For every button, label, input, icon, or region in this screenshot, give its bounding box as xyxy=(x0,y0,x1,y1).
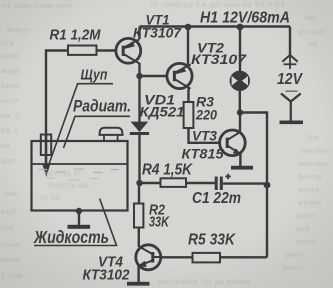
capacitor C1 (polarized) xyxy=(216,174,231,190)
diode VD1 (KD521) xyxy=(130,122,149,134)
ground at VT3 emitter xyxy=(231,153,253,170)
resistor R3 xyxy=(184,102,194,128)
resistor R2 xyxy=(134,204,143,228)
node lamp branch at rail xyxy=(237,24,244,31)
wire VD1 to node R4 xyxy=(138,135,140,183)
wire node down to R2 xyxy=(138,183,140,204)
wire VT2 emitter to rail xyxy=(187,27,189,66)
transistor VT2 (KT3107 pnp) xyxy=(167,63,192,88)
wire R4 to C1 xyxy=(186,182,215,184)
wire node to R4 xyxy=(140,182,161,184)
wire right drop to connector pin xyxy=(289,27,291,56)
wire vertical down to R5 xyxy=(266,185,268,258)
wire to R5 right xyxy=(220,256,267,258)
wire node down to VD1 xyxy=(138,76,140,122)
ground at tank xyxy=(68,211,91,229)
connector X1 socket (-) xyxy=(280,91,304,124)
radiator filler cap xyxy=(100,128,123,141)
probe (shchup) electrode xyxy=(41,135,51,178)
label Radiat. with leader xyxy=(64,97,132,149)
wire VT1 collector to node xyxy=(138,63,140,76)
label Zhidkost (liquid) with leader xyxy=(33,199,116,248)
liquid level line xyxy=(32,163,128,165)
ground at VT4 xyxy=(127,282,150,286)
connector X1 pin (+) xyxy=(282,55,297,69)
wire R2 to VT4 collector xyxy=(138,228,140,248)
node C1 right xyxy=(264,182,271,189)
wire R1 to VT1 base xyxy=(97,49,117,51)
label Shchup with leader xyxy=(49,68,113,165)
tank (radiator) body xyxy=(32,141,128,211)
wire R3 to VT3 base xyxy=(189,128,220,143)
wire node right to vertical xyxy=(240,113,267,185)
transistor VT1 (KT3107 pnp) xyxy=(116,38,141,63)
resistor R4 xyxy=(161,178,187,187)
node lamp/VT3 collector xyxy=(237,109,243,115)
wire VT2 collector to R3 xyxy=(187,88,189,102)
node VT2 emitter at rail xyxy=(185,24,192,31)
wire VT1 emitter to rail xyxy=(138,27,140,40)
wire rail to lamp xyxy=(239,27,241,72)
wire node to VT3 collector xyxy=(239,113,241,133)
faint bleed-through inside tank xyxy=(40,168,89,202)
wire lamp to node xyxy=(239,91,241,113)
wire R1 left down to probe xyxy=(46,51,68,136)
transistor VT4 (KT3102 npn, mirrored) xyxy=(136,245,161,270)
node VT1 collector / VD1 / VT2 base xyxy=(136,73,142,79)
wire VT4 emitter to ground xyxy=(137,266,139,283)
resistor R5 xyxy=(193,253,221,263)
node VD1/R4/R2 xyxy=(136,180,142,186)
liquid ripple marks xyxy=(39,169,119,180)
wire node to VT2 base xyxy=(140,75,168,77)
node tank bottom xyxy=(76,208,82,214)
wire R5 left to VT4 base xyxy=(161,256,193,258)
resistor R1 xyxy=(68,46,97,55)
wire top +12V rail xyxy=(140,25,291,27)
lamp H1 xyxy=(230,71,250,91)
wire C1 to node xyxy=(223,182,267,184)
transistor VT3 (KT815 npn) xyxy=(220,130,246,156)
